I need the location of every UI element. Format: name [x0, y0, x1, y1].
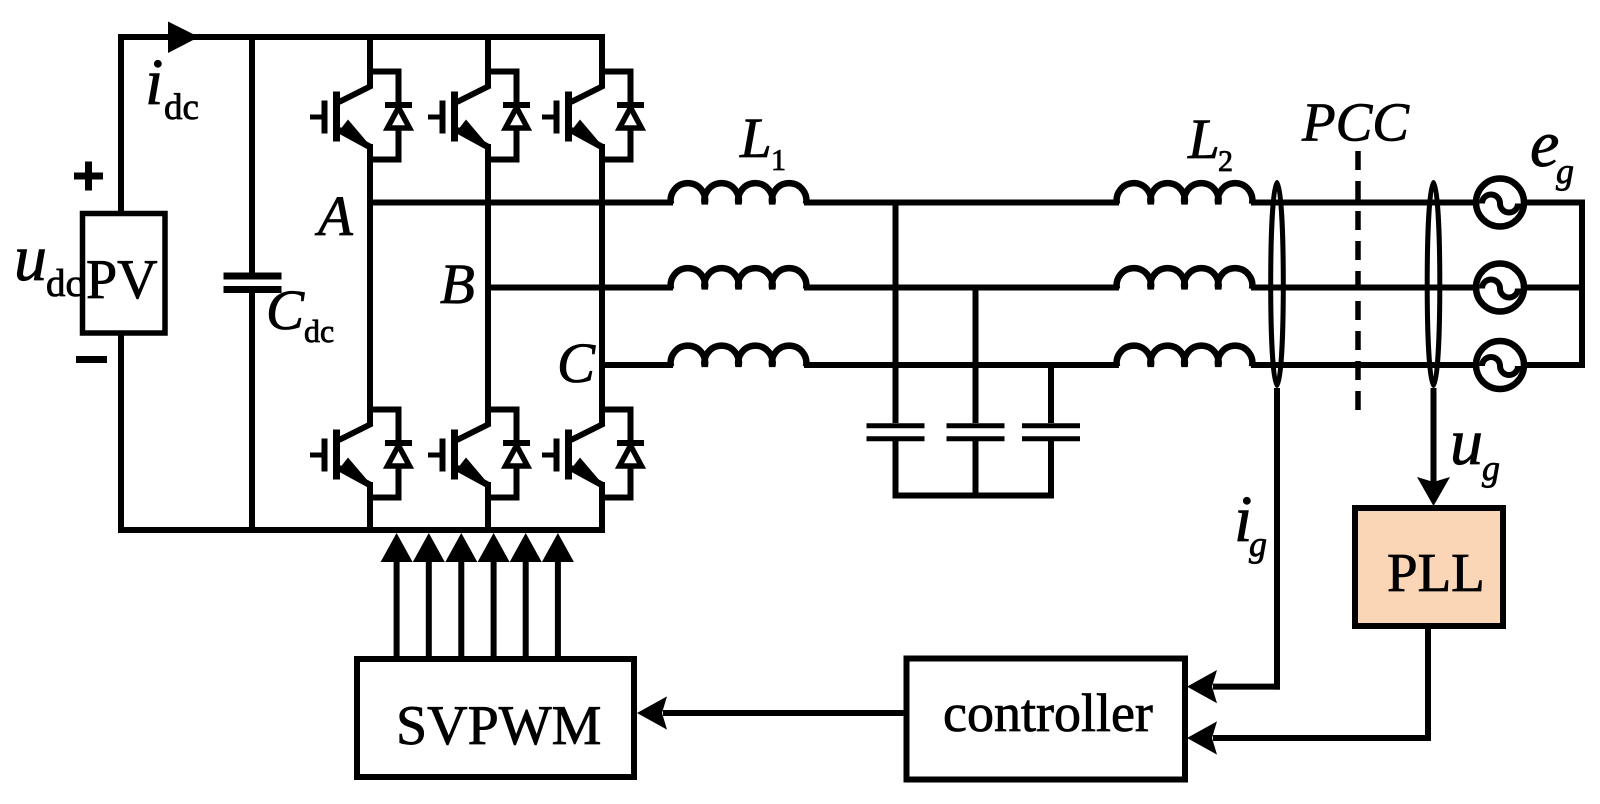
svg-text:1: 1 [771, 144, 786, 177]
svg-text:e: e [1530, 108, 1559, 181]
svg-text:L: L [739, 107, 772, 170]
svg-text:PLL: PLL [1387, 542, 1485, 603]
svg-text:controller: controller [943, 683, 1153, 743]
svg-text:u: u [1450, 406, 1483, 479]
svg-text:dc: dc [304, 313, 334, 349]
svg-text:PCC: PCC [1301, 92, 1410, 153]
svg-text:C: C [557, 332, 596, 395]
svg-text:g: g [1249, 524, 1267, 564]
svg-text:i: i [145, 46, 163, 119]
svg-text:L: L [1187, 108, 1220, 171]
svg-text:dc: dc [46, 262, 83, 305]
svg-text:u: u [14, 222, 47, 295]
svg-text:A: A [314, 185, 354, 248]
svg-text:B: B [440, 253, 475, 316]
svg-text:2: 2 [1218, 145, 1233, 178]
svg-text:SVPWM: SVPWM [396, 695, 601, 757]
svg-text:g: g [1482, 448, 1500, 488]
svg-text:PV: PV [86, 249, 158, 311]
svg-text:g: g [1556, 151, 1574, 191]
svg-text:dc: dc [164, 87, 199, 128]
svg-text:C: C [266, 279, 305, 342]
